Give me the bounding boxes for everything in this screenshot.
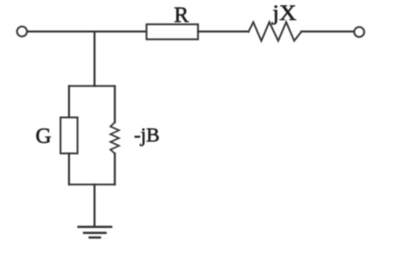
terminal left [17, 27, 27, 37]
wire bottom bar of shunt pair [69, 184, 115, 186]
ground [78, 227, 111, 238]
wire to ground [94, 185, 96, 227]
susceptance -jB [110, 122, 119, 153]
wire right branch upper [114, 86, 116, 122]
wire jX to terminal [301, 31, 354, 33]
terminal right [354, 27, 364, 37]
wire left branch upper [68, 86, 70, 117]
svg-text:R: R [174, 2, 189, 27]
reactance jX [249, 22, 302, 41]
svg-text:-jB: -jB [134, 125, 160, 147]
wire input to R [28, 31, 147, 33]
wire top bar of shunt pair [69, 85, 115, 87]
wire left branch lower [68, 153, 70, 184]
wire right branch lower [114, 154, 116, 185]
node junction [94, 32, 96, 87]
conductance G [61, 117, 78, 153]
svg-text:G: G [36, 123, 52, 148]
resistor R [147, 24, 199, 39]
svg-text:jX: jX [271, 0, 296, 25]
wire R to jX [198, 31, 249, 33]
